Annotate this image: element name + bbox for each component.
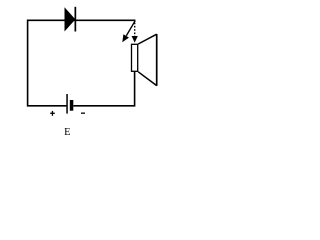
- svg-text:E: E: [64, 127, 70, 138]
